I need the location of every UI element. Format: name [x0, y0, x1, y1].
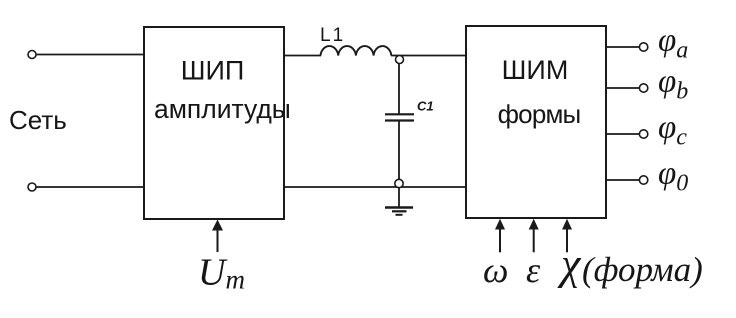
svg-text:ШИП: ШИП — [181, 56, 245, 86]
inductor L1 — [320, 25, 391, 56]
terminal: output c — [639, 130, 647, 138]
arrow: ω input into ШИМ block — [495, 219, 505, 253]
wire: output a — [606, 46, 639, 48]
capacitor C1 — [385, 99, 434, 121]
wire: ШИП block to inductor L1 — [284, 55, 321, 57]
wire: junction down to capacitor C1 — [398, 64, 400, 115]
terminal: output b — [639, 84, 647, 92]
wire: output b — [606, 87, 639, 89]
svg-text:ω: ω — [483, 250, 508, 290]
block U1: ШИП амплитуды — [144, 27, 291, 219]
block U2: ШИМ формы — [466, 26, 606, 218]
wire: output 0 — [606, 179, 639, 181]
wire: bottom-left terminal to ШИП block — [36, 186, 144, 188]
arrow: ε input into ШИМ block — [529, 219, 539, 253]
terminal: output a — [639, 43, 647, 51]
svg-text:амплитуды: амплитуды — [154, 94, 291, 124]
wire: top-left terminal to ШИП block — [36, 54, 144, 56]
svg-text:χ: χ — [557, 240, 582, 289]
node: bottom junction (open circle) — [395, 179, 403, 187]
arrow: χ input into ШИМ block — [562, 219, 572, 253]
svg-text:ε: ε — [526, 250, 541, 290]
node: top junction (open circle) — [396, 56, 404, 64]
arrow: Um input into ШИП block — [212, 220, 223, 253]
ground — [385, 188, 413, 215]
svg-text:Сеть: Сеть — [9, 105, 67, 135]
svg-text:ШИМ: ШИМ — [502, 55, 569, 85]
svg-text:формы: формы — [498, 99, 581, 129]
svg-text:(форма): (форма) — [582, 250, 703, 289]
wire: output c — [606, 133, 639, 135]
svg-text:C1: C1 — [417, 99, 434, 114]
terminal: output 0 — [639, 176, 647, 184]
wire: capacitor C1 down to bottom rail — [398, 121, 400, 188]
wire: bottom rail ШИП block to ШИМ block — [284, 186, 466, 188]
wire: inductor L1 to ШИМ block — [391, 55, 466, 57]
svg-text:L1: L1 — [320, 25, 345, 46]
net terminal top-left — [28, 51, 36, 59]
net terminal bottom-left — [28, 183, 36, 191]
